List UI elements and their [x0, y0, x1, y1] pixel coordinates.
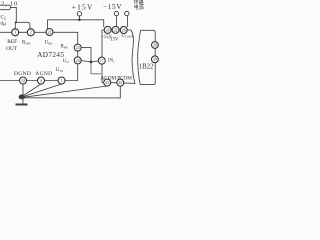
svg-text:AD7245: AD7245 — [37, 51, 64, 59]
svg-text:30: 30 — [153, 58, 157, 62]
svg-text:12: 12 — [21, 79, 25, 83]
svg-text:ACOM: ACOM — [101, 76, 117, 82]
svg-text:20: 20 — [106, 28, 110, 32]
svg-text:AGND: AGND — [35, 71, 52, 77]
svg-text:1B22: 1B22 — [139, 63, 154, 70]
svg-text:22: 22 — [114, 28, 118, 32]
svg-text:DGND: DGND — [14, 71, 31, 77]
svg-text:IN1: IN1 — [108, 59, 115, 64]
svg-text:−15V: −15V — [103, 3, 122, 11]
svg-text:−15V: −15V — [108, 38, 120, 43]
svg-text:17: 17 — [100, 59, 104, 63]
svg-text:22: 22 — [48, 30, 52, 34]
svg-text:REF: REF — [7, 39, 17, 45]
svg-text:ROFS: ROFS — [22, 41, 31, 46]
svg-text:2, 10: 2, 10 — [1, 0, 18, 7]
svg-text:28: 28 — [153, 43, 157, 47]
svg-text:PCOM: PCOM — [117, 76, 132, 82]
svg-text:4: 4 — [40, 79, 42, 83]
svg-text:2: 2 — [30, 31, 32, 35]
svg-text:电源: 电源 — [134, 4, 144, 11]
svg-text:3: 3 — [14, 31, 16, 35]
svg-text:UO: UO — [63, 59, 70, 64]
svg-text:OUT: OUT — [6, 46, 18, 52]
svg-text:0µ: 0µ — [1, 21, 7, 27]
svg-text:23: 23 — [76, 46, 80, 50]
svg-text:5: 5 — [61, 79, 63, 83]
svg-text:RFB: RFB — [61, 44, 68, 49]
svg-text:+15V: +15V — [72, 3, 94, 12]
svg-text:24: 24 — [76, 59, 80, 63]
svg-text:UDD: UDD — [45, 41, 54, 46]
